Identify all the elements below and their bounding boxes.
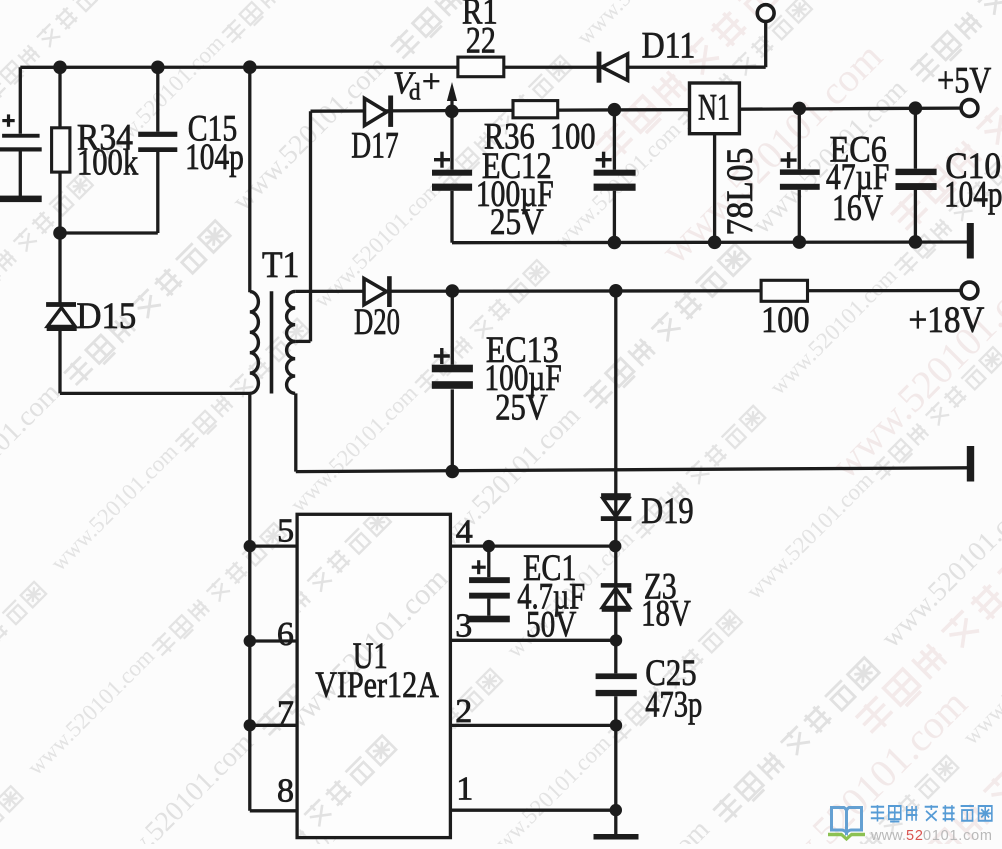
svg-text:22: 22: [466, 20, 496, 61]
svg-text:www.: www.: [870, 828, 906, 844]
svg-text:N1: N1: [698, 88, 730, 129]
svg-text:+5V: +5V: [937, 61, 991, 102]
svg-text:100k: 100k: [77, 143, 139, 184]
svg-text:T1: T1: [262, 245, 299, 286]
svg-text:D19: D19: [641, 491, 694, 532]
svg-text:18V: 18V: [641, 593, 691, 634]
svg-text:104p: 104p: [944, 174, 1002, 215]
svg-text:16V: 16V: [832, 188, 883, 229]
svg-text:6: 6: [277, 616, 294, 653]
svg-text:104p: 104p: [185, 137, 244, 178]
svg-text:7: 7: [277, 695, 294, 732]
svg-text:52: 52: [906, 828, 923, 844]
svg-text:50V: 50V: [526, 605, 577, 646]
svg-text:D17: D17: [351, 126, 399, 167]
svg-text:3: 3: [455, 608, 472, 645]
svg-text:8: 8: [277, 773, 294, 810]
svg-text:1: 1: [456, 771, 473, 808]
svg-text:+: +: [422, 64, 441, 100]
svg-text:D15: D15: [76, 296, 136, 337]
svg-text:25V: 25V: [495, 388, 548, 429]
svg-text:25V: 25V: [490, 202, 544, 243]
svg-text:d: d: [409, 80, 421, 105]
svg-text:473p: 473p: [645, 684, 702, 725]
svg-text:VIPer12A: VIPer12A: [315, 665, 439, 706]
svg-text:4: 4: [456, 514, 473, 551]
svg-text:+18V: +18V: [909, 300, 985, 341]
svg-text:78L05: 78L05: [720, 148, 761, 236]
svg-text:D11: D11: [642, 26, 696, 67]
svg-text:5: 5: [277, 513, 294, 550]
svg-text:2: 2: [455, 693, 472, 730]
svg-text:0101.com: 0101.com: [923, 828, 992, 844]
svg-text:D20: D20: [354, 302, 400, 343]
svg-text:100: 100: [761, 300, 810, 341]
